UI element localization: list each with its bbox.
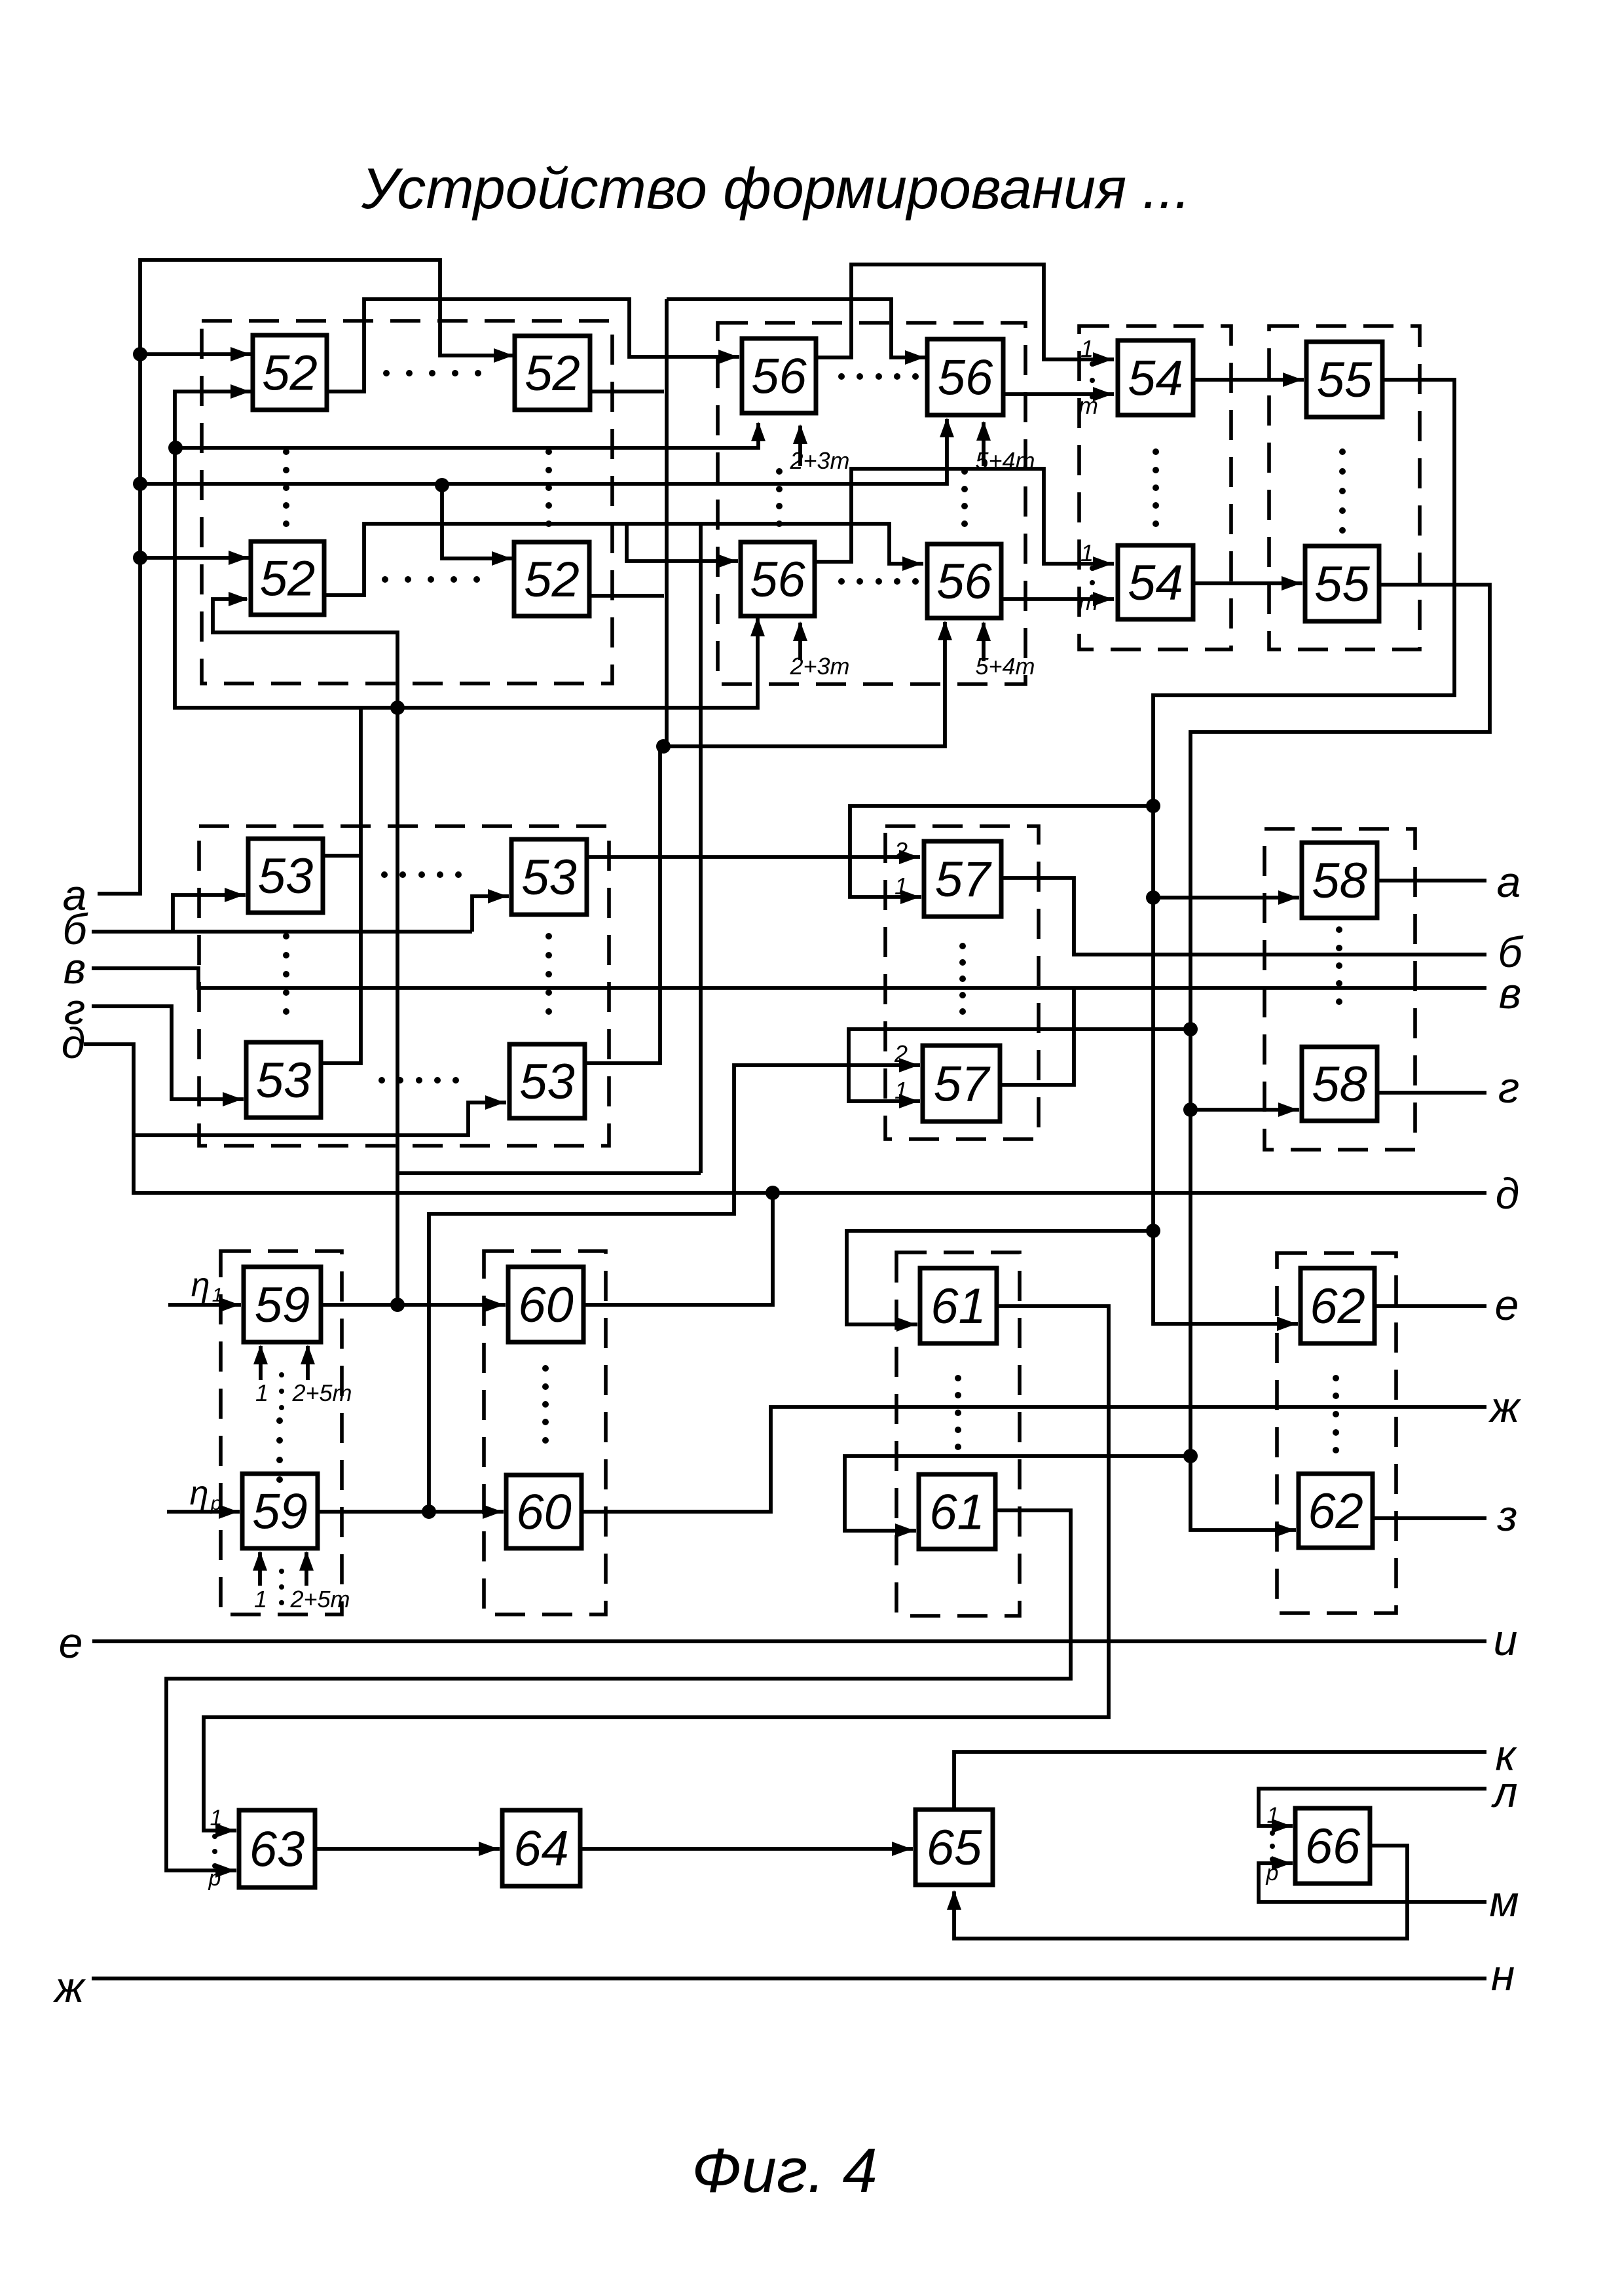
arrowhead into 61b <box>895 1523 915 1538</box>
vdots group60 <box>542 1365 549 1444</box>
vdots group58 <box>1336 926 1342 1005</box>
ellipsis between 52 row2 <box>382 576 480 583</box>
vdots group61 <box>955 1375 961 1450</box>
dashed group 56 <box>718 323 1025 684</box>
junction x1761 y1231 <box>1146 799 1160 813</box>
block 52 row2 right <box>514 542 589 616</box>
block 66 <box>1295 1808 1370 1884</box>
wire 54a output to 55a <box>1193 378 1304 382</box>
wire 56b output to 54a input m <box>1004 392 1114 396</box>
stub 2+3m row2 <box>798 623 802 660</box>
arrowhead into 52d upper input <box>492 551 511 566</box>
vdots group59 <box>276 1417 283 1483</box>
svg-text:p: p <box>210 1493 222 1514</box>
svg-text:62: 62 <box>1308 1484 1363 1539</box>
vdots 59b stubs <box>279 1569 284 1605</box>
svg-text:г: г <box>1498 1063 1520 1112</box>
vdots group52 col2 <box>545 448 552 527</box>
vdots 54a input <box>1090 361 1095 399</box>
vdots group56 col2 <box>961 468 968 527</box>
svg-text:5+4m: 5+4m <box>975 653 1035 680</box>
vdots group53 col2 <box>545 933 552 1015</box>
vdots 66 input <box>1270 1831 1275 1862</box>
wire 57a input1 loop <box>850 806 1153 897</box>
wire 63 output to 64 <box>315 1847 500 1851</box>
wire 57b input2 feed <box>429 1065 920 1512</box>
vdots 63 input <box>212 1834 217 1868</box>
block 63 <box>239 1810 315 1887</box>
junction rail739 x675 <box>435 478 449 492</box>
svg-text:и: и <box>1494 1616 1518 1664</box>
wire 58a input <box>1153 896 1299 900</box>
svg-text:2+5m: 2+5m <box>291 1379 352 1406</box>
wire 57b output riser <box>1000 988 1074 1085</box>
wire 55b output loop <box>1190 585 1490 1530</box>
vdots 54b input <box>1090 566 1095 600</box>
vdots group62 <box>1333 1375 1339 1453</box>
block 61 row5 <box>920 1268 997 1343</box>
ellipsis between 52 row1 <box>383 370 481 376</box>
wire 53b output to 57a input2 <box>587 855 920 859</box>
block 60 row5 <box>508 1267 583 1342</box>
wire l rail to 66 input1 <box>1259 1789 1486 1826</box>
svg-text:66: 66 <box>1305 1819 1361 1874</box>
svg-text:ж: ж <box>52 1963 86 2011</box>
svg-text:58: 58 <box>1312 853 1367 909</box>
wire d input rail <box>84 1044 1486 1193</box>
wire branch to 52d upper input <box>442 485 513 558</box>
wire 64 output to 65 <box>580 1847 913 1851</box>
block 58 row3 <box>1302 843 1377 918</box>
svg-text:л: л <box>1490 1768 1517 1816</box>
arrowhead into 66 input 1 <box>1272 1819 1291 1833</box>
block 53 row4 right <box>509 1044 585 1118</box>
svg-text:1: 1 <box>1267 1803 1280 1828</box>
arrowhead into 55a <box>1283 373 1302 387</box>
block 53 row3 right <box>511 839 587 915</box>
wire 58b output <box>1377 1091 1486 1095</box>
wire 55a output loop <box>1153 380 1454 1324</box>
wire node1140 down to 53d output <box>585 746 660 1063</box>
junction node x1013 y1140 <box>656 739 671 754</box>
wire 52b output <box>591 390 664 393</box>
block 56 row2 right <box>927 544 1001 618</box>
block 60 row6 <box>506 1475 581 1548</box>
svg-text:53: 53 <box>521 850 577 905</box>
wire to 52c upper input <box>140 556 249 560</box>
svg-text:m: m <box>1079 392 1098 419</box>
arrowhead stub 5+4m row2 <box>976 621 991 641</box>
arrowhead into 56b bottom <box>940 418 954 437</box>
block 54 row2 <box>1118 545 1193 619</box>
svg-text:д: д <box>1496 1169 1519 1218</box>
arrowhead stub 2+3m row2 <box>793 621 807 641</box>
svg-text:η: η <box>191 1266 210 1304</box>
svg-text:ж: ж <box>1488 1383 1521 1431</box>
svg-text:Устройство формирования ...: Устройство формирования ... <box>361 156 1190 221</box>
wire long vertical x1070 <box>699 524 703 1173</box>
ellipsis between 53 row3 <box>381 871 462 878</box>
arrowhead into 57a input 1 <box>900 890 920 904</box>
arrowhead into 55b <box>1282 576 1301 591</box>
wire riser x267 52a lower input <box>175 392 758 708</box>
dashed group 53 <box>199 826 609 1146</box>
svg-text:63: 63 <box>249 1822 305 1878</box>
arrowhead into 58b <box>1278 1102 1298 1117</box>
wire d branch to 53d <box>134 1102 506 1135</box>
vdots group56 col1 <box>776 468 783 527</box>
arrowhead into 54b input 1 <box>1093 556 1113 571</box>
svg-text:53: 53 <box>258 848 314 904</box>
block 52 row1 right <box>515 336 590 410</box>
arrowhead into 56c bottom <box>750 617 765 636</box>
arrowhead into 65 <box>892 1842 912 1856</box>
arrowhead into 56a upper input <box>718 350 738 364</box>
wire 59b output <box>318 1510 504 1514</box>
arrowhead into 54a input 1 <box>1093 352 1113 367</box>
wire 57b input1 loop <box>849 1029 1190 1101</box>
junction x1818 y2224 <box>1183 1449 1198 1463</box>
block 61 row6 <box>919 1474 995 1549</box>
wire b branch to 53b <box>472 896 509 932</box>
arrowhead into 52c upper input <box>229 551 248 565</box>
junction x1761 y1371 <box>1146 890 1160 905</box>
wire 54b output to 55b <box>1193 581 1302 585</box>
svg-text:1: 1 <box>254 1586 267 1613</box>
svg-text:55: 55 <box>1314 556 1370 612</box>
vdots group55 <box>1339 448 1346 534</box>
block 53 row3 left <box>248 839 323 913</box>
wire 56d output to 54b input m <box>1001 597 1114 601</box>
wire to 52a upper input <box>140 352 251 356</box>
wire 65 to k rail <box>954 1752 1486 1810</box>
arrowhead into 56c upper input <box>717 554 737 568</box>
svg-text:52: 52 <box>524 552 580 608</box>
wire branch x957 to 56c upper input <box>627 524 738 561</box>
arrowhead into 63 input p <box>215 1863 235 1878</box>
dashed group 60 <box>484 1251 606 1614</box>
svg-text:м: м <box>1489 1877 1519 1925</box>
stub 5+4m row2 <box>982 623 986 661</box>
wire 62a output <box>1375 1304 1486 1308</box>
wire rail y457 right segment <box>667 299 926 357</box>
svg-text:1: 1 <box>255 1379 268 1406</box>
svg-text:2+3m: 2+3m <box>789 653 849 680</box>
stub 59b 2+5m <box>304 1552 308 1586</box>
svg-text:p: p <box>208 1866 221 1891</box>
wire 58b input <box>1190 1108 1299 1112</box>
wire 52a output rail y457 <box>327 299 739 392</box>
arrowhead stub 5+4m row1 <box>976 421 991 441</box>
svg-text:55: 55 <box>1317 352 1373 408</box>
arrowhead into 60a <box>485 1298 504 1312</box>
svg-text:2+3m: 2+3m <box>789 447 849 474</box>
wire 56c output to 54b input1 <box>815 469 1114 564</box>
arrowhead into 54a input m <box>1093 387 1113 401</box>
block 55 row2 <box>1305 546 1379 621</box>
vdots group53 col1 <box>283 933 289 1015</box>
arrowhead into 61a <box>896 1317 916 1332</box>
svg-text:58: 58 <box>1312 1057 1367 1112</box>
wire vertical x551 <box>321 708 361 1063</box>
wire rail y739 to 56b bottom <box>140 419 947 484</box>
arrowhead into 60b <box>483 1504 502 1519</box>
wire 53a output riser <box>323 854 361 858</box>
wire 62b output <box>1373 1516 1486 1520</box>
wire vertical x1018 <box>665 299 669 746</box>
svg-text:е: е <box>59 1618 83 1667</box>
arrowhead into 57b input 2 <box>899 1058 919 1072</box>
junction x267 y684 <box>168 441 183 455</box>
arrowhead into 56b upper input <box>905 350 925 365</box>
arrowhead into 59b <box>219 1504 238 1519</box>
vdots group57 <box>959 943 966 1015</box>
wire 58a output <box>1377 879 1486 883</box>
dashed group 61 <box>896 1252 1020 1616</box>
block 52 row1 left <box>253 335 327 410</box>
block 56 row2 left <box>741 542 815 616</box>
block 54 row1 <box>1118 340 1193 415</box>
dashed group 52 <box>202 321 612 683</box>
ellipsis between 56 row1 <box>838 373 919 380</box>
arrowhead into 53d <box>485 1095 505 1110</box>
junction x655 y2309 <box>422 1504 436 1519</box>
block 56 row1 right <box>927 339 1003 415</box>
svg-text:е: е <box>1495 1281 1519 1329</box>
svg-text:52: 52 <box>260 551 316 607</box>
svg-text:54: 54 <box>1128 555 1183 611</box>
arrowhead 59a stub1 <box>253 1345 268 1364</box>
svg-text:1: 1 <box>1080 539 1094 566</box>
wire branch y684 to 56a bottom <box>175 423 758 448</box>
arrowhead into 62b input <box>1275 1523 1295 1537</box>
wire a-input trunk to top rail <box>98 260 515 894</box>
svg-text:61: 61 <box>929 1485 985 1540</box>
block 64 <box>502 1810 580 1886</box>
svg-text:2: 2 <box>894 837 908 864</box>
ellipsis between 53 row4 <box>378 1077 459 1084</box>
arrowhead into 52a upper input <box>231 347 250 361</box>
block 62 row6 <box>1299 1474 1373 1548</box>
block 59 row5 <box>244 1267 321 1342</box>
stub 59a 1 <box>259 1346 263 1380</box>
svg-text:54: 54 <box>1128 351 1183 407</box>
svg-text:з: з <box>1497 1491 1518 1540</box>
arrowhead into 57a input 2 <box>899 850 919 864</box>
arrowhead into 52b upper input <box>494 348 513 363</box>
arrowhead into 56a bottom <box>751 422 766 441</box>
svg-text:56: 56 <box>751 349 807 405</box>
dashed group 57 <box>885 826 1039 1139</box>
arrowhead into 59a <box>220 1298 240 1312</box>
block 56 row1 left <box>742 338 816 413</box>
arrowhead into 63 input 1 <box>215 1823 235 1838</box>
svg-text:53: 53 <box>256 1053 312 1108</box>
junction x1180 y1822 <box>766 1186 780 1200</box>
svg-text:1: 1 <box>1080 335 1094 362</box>
stub 59b 1 <box>258 1552 262 1586</box>
svg-text:57: 57 <box>935 852 992 907</box>
block 53 row4 left <box>246 1042 321 1118</box>
wire b input rail <box>92 930 472 934</box>
svg-text:p: p <box>1266 1861 1279 1886</box>
wire 61b input loop <box>845 1456 1190 1531</box>
svg-text:56: 56 <box>936 554 992 610</box>
wire 66 output loop to 65 <box>954 1846 1407 1939</box>
block 55 row1 <box>1306 342 1382 417</box>
wire 61a output to 63 input1 <box>204 1306 1109 1831</box>
arrowhead into 66 input p <box>1272 1856 1291 1870</box>
wire b branch to 53a <box>173 895 246 932</box>
vdots group54 <box>1153 448 1159 527</box>
arrowhead into 53c <box>223 1092 242 1106</box>
dashed group 55 <box>1269 326 1420 649</box>
wire 56a output to 54a input1 <box>817 264 1114 359</box>
dashed group 58 <box>1264 829 1415 1150</box>
wire 61a input loop <box>847 1231 1153 1324</box>
svg-text:1: 1 <box>210 1806 223 1831</box>
vdots group52 col1 <box>283 448 289 527</box>
block 57 row4 <box>923 1046 1000 1121</box>
arrowhead into 52c lower input <box>229 592 248 606</box>
svg-text:1: 1 <box>895 1077 908 1104</box>
arrowhead into 53a <box>225 888 244 902</box>
wire eta1 input <box>168 1303 241 1307</box>
wire 52d output <box>589 594 664 598</box>
arrowhead stub 2+3m row1 <box>793 424 807 444</box>
ellipsis between 56 row2 <box>838 578 919 585</box>
svg-text:1: 1 <box>212 1285 223 1306</box>
svg-text:д: д <box>62 1019 85 1067</box>
wire y1792 jog <box>397 1171 701 1175</box>
wire 60b output zh rail <box>581 1407 1486 1512</box>
wire v rail <box>92 968 1486 988</box>
junction x1818 y1572 <box>1183 1022 1198 1036</box>
arrowhead into 65 bottom <box>947 1890 961 1910</box>
svg-text:57: 57 <box>934 1057 991 1112</box>
block 58 row4 <box>1302 1047 1377 1121</box>
wire zh to n rail <box>92 1977 1486 1980</box>
svg-text:59: 59 <box>252 1484 308 1540</box>
svg-text:59: 59 <box>255 1277 310 1333</box>
svg-text:52: 52 <box>262 346 318 401</box>
arrowhead 59b stub2 <box>299 1551 314 1571</box>
junction x607 y1081 <box>390 701 405 715</box>
block 57 row3 <box>924 841 1001 917</box>
arrowhead into 56d upper input <box>902 556 922 571</box>
svg-text:60: 60 <box>516 1485 572 1540</box>
junction x600 y1993 <box>390 1298 405 1312</box>
wire 59a output <box>321 1303 506 1307</box>
vdots 59a stubs <box>279 1372 284 1410</box>
wire node1140 to 56d bottom <box>663 622 945 746</box>
arrowhead 59a stub2 <box>301 1345 315 1364</box>
dashed group 59 <box>221 1251 342 1614</box>
svg-text:5+4m: 5+4m <box>975 447 1035 474</box>
stub 2+3m row1 <box>798 426 802 466</box>
wire e to i rail <box>92 1639 1486 1643</box>
junction x1818 y1695 <box>1183 1102 1198 1117</box>
junction on trunk y852 <box>133 551 147 565</box>
svg-text:52: 52 <box>525 346 580 401</box>
arrowhead 59b stub1 <box>253 1551 267 1571</box>
junction on trunk y739 <box>133 477 147 491</box>
dashed group 54 <box>1079 326 1231 649</box>
dashed group 62 <box>1277 1253 1396 1613</box>
wire 52c lower input riser <box>213 599 397 1305</box>
wire 60a output riser <box>583 1193 773 1305</box>
svg-text:н: н <box>1491 1951 1515 1999</box>
svg-text:в: в <box>1499 969 1521 1017</box>
arrowhead into 57b input 1 <box>899 1094 919 1108</box>
junction on trunk y541 <box>133 347 147 361</box>
arrowhead into 64 <box>479 1842 498 1856</box>
svg-text:60: 60 <box>518 1277 574 1333</box>
junction x1761 y1880 <box>1146 1224 1160 1238</box>
svg-text:2: 2 <box>894 1040 908 1067</box>
svg-text:62: 62 <box>1310 1279 1365 1334</box>
svg-text:56: 56 <box>750 552 805 608</box>
svg-text:а: а <box>1497 858 1521 906</box>
arrowhead into 58a <box>1278 890 1298 905</box>
wire 57a output to b rail <box>1001 878 1486 955</box>
svg-text:η: η <box>190 1474 209 1512</box>
svg-text:2+5m: 2+5m <box>289 1586 350 1613</box>
block 65 <box>915 1810 993 1885</box>
svg-text:64: 64 <box>513 1821 569 1877</box>
svg-text:1: 1 <box>895 873 908 900</box>
block 59 row6 <box>242 1474 318 1548</box>
svg-text:m: m <box>1079 589 1098 615</box>
wire 52c output rail y800 <box>324 524 923 595</box>
svg-text:61: 61 <box>931 1279 986 1334</box>
wire etap input <box>167 1510 240 1514</box>
wire g input to 53c <box>92 1006 244 1099</box>
arrowhead into 53b <box>488 889 507 903</box>
wire m rail to 66 input p <box>1259 1863 1486 1902</box>
wire 61b output to 63 input p <box>166 1510 1071 1870</box>
arrowhead into 52a lower input <box>231 384 250 399</box>
svg-text:Фиг. 4: Фиг. 4 <box>692 2136 877 2206</box>
svg-text:65: 65 <box>927 1820 982 1876</box>
block 52 row2 left <box>251 541 324 615</box>
stub 59a 2+5m <box>306 1346 310 1380</box>
stub 5+4m row1 <box>982 422 986 466</box>
svg-text:53: 53 <box>519 1054 575 1110</box>
svg-text:56: 56 <box>938 350 993 406</box>
arrowhead into 54b input m <box>1093 592 1113 606</box>
block 62 row5 <box>1301 1268 1375 1343</box>
arrowhead into 62a input <box>1277 1317 1297 1331</box>
arrowhead into 56d bottom <box>938 621 952 640</box>
